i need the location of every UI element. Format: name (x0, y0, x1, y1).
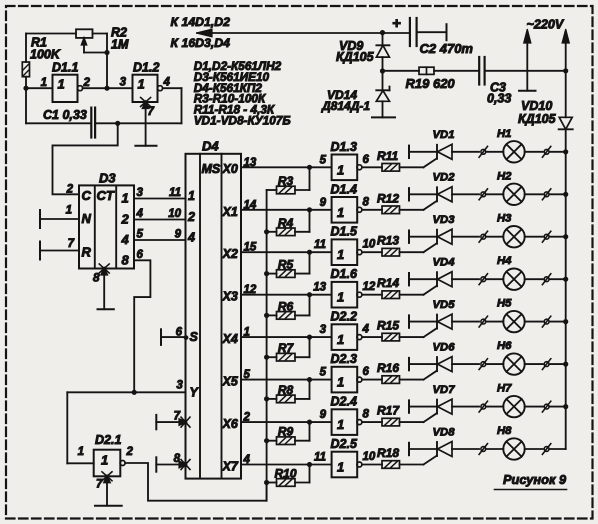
svg-text:X6: X6 (222, 417, 239, 431)
svg-text:4: 4 (136, 208, 144, 220)
svg-text:D1.1: D1.1 (52, 61, 78, 75)
svg-text:6: 6 (176, 327, 183, 339)
svg-text:X5: X5 (222, 375, 239, 389)
svg-text:C1 0,33: C1 0,33 (43, 108, 87, 122)
svg-text:R5: R5 (278, 258, 294, 272)
svg-text:1: 1 (244, 327, 250, 339)
svg-text:2: 2 (243, 412, 251, 424)
svg-text:H2: H2 (497, 170, 512, 182)
svg-text:VD4: VD4 (433, 257, 456, 269)
svg-text:H3: H3 (497, 213, 512, 225)
svg-text:1: 1 (41, 77, 47, 89)
svg-text:X0: X0 (222, 162, 238, 176)
svg-text:1: 1 (337, 332, 344, 347)
svg-text:Рисунок 9: Рисунок 9 (503, 472, 567, 487)
svg-text:H1: H1 (497, 128, 511, 140)
svg-text:К 14D1,D2: К 14D1,D2 (171, 15, 231, 29)
svg-text:11: 11 (314, 239, 326, 251)
svg-text:C: C (82, 188, 92, 203)
svg-text:D2.3: D2.3 (331, 352, 357, 366)
svg-text:VD7: VD7 (433, 384, 456, 396)
svg-text:7: 7 (174, 411, 181, 423)
svg-text:D2.1: D2.1 (95, 433, 121, 447)
svg-text:R15: R15 (377, 319, 399, 333)
svg-text:8: 8 (363, 196, 370, 208)
svg-text:1: 1 (66, 205, 72, 217)
svg-text:X4: X4 (222, 332, 238, 346)
svg-text:1: 1 (101, 453, 108, 468)
svg-text:3: 3 (137, 187, 144, 199)
svg-text:R19 620: R19 620 (406, 76, 456, 91)
svg-text:6: 6 (363, 154, 370, 166)
svg-text:+: + (392, 15, 401, 32)
svg-text:3: 3 (176, 380, 183, 392)
svg-text:2: 2 (121, 212, 130, 227)
svg-text:7: 7 (96, 479, 103, 491)
svg-text:8: 8 (363, 409, 370, 421)
svg-text:R9: R9 (278, 425, 294, 439)
svg-text:5: 5 (320, 154, 327, 166)
svg-text:H8: H8 (497, 425, 512, 437)
svg-text:9: 9 (320, 409, 327, 421)
svg-text:S: S (190, 330, 199, 344)
svg-text:6: 6 (137, 249, 144, 261)
svg-text:10: 10 (363, 239, 376, 251)
svg-text:D2.4: D2.4 (331, 395, 357, 409)
svg-text:CT: CT (97, 188, 115, 203)
svg-text:14: 14 (244, 199, 257, 211)
svg-text:VD2: VD2 (433, 172, 456, 184)
svg-text:8: 8 (93, 271, 100, 285)
svg-text:10: 10 (363, 451, 376, 463)
svg-text:2: 2 (126, 446, 134, 458)
svg-text:5: 5 (137, 229, 144, 241)
svg-text:4: 4 (121, 232, 130, 247)
svg-text:7: 7 (68, 238, 75, 250)
svg-text:VD10: VD10 (521, 99, 552, 113)
svg-text:Д814Д-1: Д814Д-1 (321, 99, 370, 113)
svg-text:R12: R12 (377, 191, 399, 205)
svg-text:4: 4 (187, 231, 195, 245)
svg-text:R8: R8 (278, 383, 294, 397)
svg-text:R11: R11 (377, 149, 398, 163)
svg-text:К 16D3,D4: К 16D3,D4 (171, 36, 231, 50)
svg-text:X3: X3 (222, 290, 238, 304)
svg-text:15: 15 (244, 242, 257, 254)
svg-text:1: 1 (337, 460, 344, 475)
svg-text:D4: D4 (202, 139, 219, 154)
svg-text:X2: X2 (222, 247, 238, 261)
svg-text:5: 5 (244, 369, 251, 381)
svg-text:1: 1 (188, 189, 195, 203)
svg-text:9: 9 (320, 197, 327, 209)
svg-text:КД105: КД105 (336, 50, 375, 64)
svg-text:10: 10 (168, 208, 181, 220)
svg-text:R: R (82, 245, 92, 260)
svg-text:D3: D3 (99, 171, 116, 186)
svg-text:R7: R7 (278, 341, 295, 355)
svg-text:D1.5: D1.5 (331, 225, 358, 239)
svg-text:9: 9 (175, 229, 182, 241)
svg-text:2: 2 (66, 184, 74, 196)
svg-text:0,33: 0,33 (487, 92, 511, 106)
svg-text:12: 12 (363, 281, 376, 293)
svg-text:1: 1 (138, 77, 145, 92)
svg-text:5: 5 (320, 367, 327, 379)
svg-text:8: 8 (122, 252, 130, 267)
svg-text:H7: H7 (497, 383, 512, 395)
svg-text:4: 4 (163, 77, 171, 89)
svg-text:1: 1 (337, 375, 344, 390)
svg-text:1: 1 (78, 446, 84, 458)
svg-text:R18: R18 (377, 446, 399, 460)
svg-text:C2 470m: C2 470m (420, 41, 474, 56)
svg-text:7: 7 (148, 106, 155, 118)
svg-text:11: 11 (169, 187, 181, 199)
svg-text:R13: R13 (377, 234, 399, 248)
svg-text:1: 1 (337, 205, 344, 220)
svg-text:D1.4: D1.4 (331, 182, 357, 196)
svg-text:6: 6 (363, 366, 370, 378)
svg-text:КД105: КД105 (518, 112, 557, 126)
svg-text:13: 13 (313, 282, 326, 294)
svg-text:3: 3 (320, 324, 327, 336)
svg-text:100K: 100K (30, 48, 61, 62)
svg-text:VD1: VD1 (433, 129, 455, 141)
svg-text:VD6: VD6 (433, 342, 456, 354)
svg-text:1: 1 (337, 162, 344, 177)
svg-text:D2.5: D2.5 (331, 437, 358, 451)
svg-text:VD1-VD8-КУ107Б: VD1-VD8-КУ107Б (194, 114, 291, 128)
svg-text:H5: H5 (497, 298, 512, 310)
svg-text:1: 1 (337, 247, 344, 262)
svg-text:D1.3: D1.3 (331, 140, 357, 154)
svg-text:R3: R3 (278, 174, 294, 188)
svg-text:R14: R14 (377, 276, 399, 290)
svg-text:X7: X7 (222, 460, 239, 474)
svg-text:4: 4 (243, 454, 251, 466)
svg-text:1: 1 (122, 191, 129, 206)
svg-text:D2.2: D2.2 (331, 310, 357, 324)
svg-text:11: 11 (314, 452, 326, 464)
svg-text:1: 1 (58, 77, 65, 92)
svg-text:R16: R16 (377, 361, 399, 375)
svg-text:MS: MS (202, 162, 221, 176)
svg-text:H6: H6 (497, 340, 512, 352)
svg-text:13: 13 (244, 157, 257, 169)
svg-text:3: 3 (120, 77, 127, 89)
svg-text:R17: R17 (377, 404, 400, 418)
svg-text:~220V: ~220V (527, 18, 565, 32)
svg-text:1: 1 (337, 290, 344, 305)
svg-text:D1.2: D1.2 (133, 61, 159, 75)
svg-text:VD5: VD5 (433, 299, 456, 311)
svg-text:H4: H4 (497, 255, 512, 267)
svg-text:2: 2 (187, 210, 195, 224)
svg-text:D1.6: D1.6 (331, 267, 358, 281)
svg-text:N: N (82, 211, 92, 226)
svg-text:1: 1 (337, 417, 344, 432)
svg-text:VD8: VD8 (433, 426, 456, 438)
svg-text:4: 4 (362, 324, 370, 336)
svg-text:2: 2 (83, 77, 91, 89)
svg-text:8: 8 (174, 453, 181, 465)
svg-text:R6: R6 (278, 299, 294, 313)
svg-text:X1: X1 (222, 205, 238, 219)
svg-text:R4: R4 (278, 216, 294, 230)
svg-text:12: 12 (244, 284, 257, 296)
svg-text:R10: R10 (274, 467, 296, 481)
svg-text:1M: 1M (111, 38, 129, 52)
svg-text:VD3: VD3 (433, 214, 456, 226)
